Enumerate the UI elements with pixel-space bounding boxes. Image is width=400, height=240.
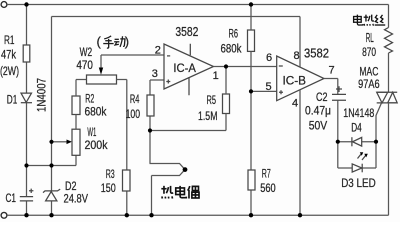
junction bottom rail / C1 — [24, 213, 28, 217]
wire link y=165.5 — [27, 155, 77, 165]
svg-text:(: ( — [97, 34, 102, 49]
svg-text:R1: R1 — [4, 35, 15, 47]
wire B vertical x=51.5 — [51, 17, 53, 216]
wire C2 to D4 — [337, 100, 339, 141]
char dian — [176, 186, 187, 198]
wire W2 wiper arrow — [100, 55, 102, 68]
wire pin4 — [299, 90, 301, 215]
wire R2-W1 column — [76, 80, 87, 130]
wire IC-B output to C2 — [324, 79, 338, 95]
svg-text:3582: 3582 — [175, 24, 198, 39]
svg-text:97A6: 97A6 — [358, 79, 380, 91]
resistor RL zigzag — [385, 28, 393, 54]
svg-text:): ) — [125, 34, 129, 49]
wire D4 rung — [338, 141, 376, 143]
char si — [375, 15, 386, 25]
svg-text:1: 1 — [213, 70, 219, 82]
wire bottom rail — [7, 214, 389, 216]
char re — [161, 186, 173, 199]
svg-text:(2W): (2W) — [0, 66, 19, 78]
terminal bottom-left — [1, 212, 7, 218]
wire top rail — [7, 4, 389, 6]
wire R6/R7 column — [250, 5, 252, 216]
svg-text:150: 150 — [101, 183, 116, 195]
svg-text:W2: W2 — [80, 47, 93, 59]
wire R5 leads — [225, 67, 227, 131]
svg-text:8: 8 — [294, 50, 300, 62]
svg-text:R4: R4 — [130, 94, 140, 106]
svg-text:C1: C1 — [6, 193, 17, 205]
resistor R3 — [123, 170, 131, 191]
junction bottom rail / R7 — [249, 213, 253, 217]
char re2 — [364, 15, 374, 26]
svg-text:W1: W1 — [87, 127, 96, 139]
svg-text:D4: D4 — [351, 123, 362, 135]
svg-text:100: 100 — [126, 109, 141, 121]
svg-text:D2: D2 — [65, 181, 77, 193]
LED D3 — [352, 152, 368, 172]
junction bottom rail / thermocouple — [149, 213, 153, 217]
junction IC-A output node — [224, 64, 228, 68]
label thermocouple — [161, 186, 199, 199]
capacitor C2 — [332, 86, 346, 100]
svg-text:1.5M: 1.5M — [198, 111, 218, 123]
svg-text:3: 3 — [152, 68, 158, 80]
svg-text:RL: RL — [366, 31, 374, 45]
potentiometer W2 — [87, 75, 117, 84]
svg-text:4: 4 — [292, 98, 298, 110]
char dong — [114, 36, 125, 47]
resistor R4 — [147, 95, 154, 116]
terminal top-left — [1, 2, 7, 8]
wire W2 right lead to R3 — [117, 80, 127, 216]
wire D box sides — [338, 142, 376, 168]
label heating wire — [354, 15, 386, 26]
wire IC-A output — [214, 66, 277, 68]
svg-text:680k: 680k — [221, 43, 242, 55]
svg-text:200k: 200k — [85, 140, 108, 152]
wire D3 rung — [338, 167, 376, 169]
svg-text:D1: D1 — [7, 95, 17, 107]
label (manual) — [97, 34, 130, 49]
wire triac gate — [376, 103, 382, 142]
svg-text:R3: R3 — [106, 169, 115, 181]
thermocouple — [150, 164, 188, 216]
svg-text:560: 560 — [260, 183, 276, 195]
svg-text:MAC: MAC — [359, 66, 378, 78]
junction wire B / DC link — [49, 163, 53, 167]
junction R6/R7 divider at pin 5 — [249, 89, 253, 93]
zener D2 — [43, 189, 60, 201]
svg-text:D3 LED: D3 LED — [341, 178, 376, 190]
svg-text:47k: 47k — [1, 50, 16, 62]
wire box top rail y=16.5 — [52, 16, 301, 18]
wire RL to triac — [388, 53, 390, 92]
svg-text:3582: 3582 — [304, 46, 329, 61]
wire pin3 / R4 column — [150, 80, 164, 164]
wire triac to bottom rail — [388, 103, 390, 215]
op-amp U1 IC-A — [164, 44, 214, 95]
wire pin2 to IC-A — [101, 54, 164, 56]
wire feedback y=130.5 — [150, 130, 226, 132]
svg-text:680k: 680k — [85, 107, 107, 119]
junction wire A / DC link — [24, 163, 28, 167]
svg-text:C2: C2 — [316, 92, 328, 104]
wire W1 wiper — [52, 141, 68, 143]
svg-text:IC-A: IC-A — [173, 63, 196, 75]
op-amp U2 IC-B — [277, 56, 324, 101]
junction bottom rail / D2 — [49, 213, 53, 217]
wire right vertical upper — [388, 5, 390, 28]
svg-text:IC-B: IC-B — [283, 75, 307, 87]
junction bottom rail / R3 — [125, 213, 129, 217]
junction gate to D4/D3 right — [374, 140, 378, 144]
junction top rail / R6 branch — [249, 2, 253, 6]
resistor R2 — [72, 96, 80, 115]
resistor R1 — [23, 45, 30, 62]
svg-text:1N4148: 1N4148 — [343, 108, 374, 120]
char ou — [188, 186, 199, 198]
triac MAC97A6 — [377, 92, 398, 103]
svg-text:6: 6 — [266, 52, 272, 64]
svg-text:50V: 50V — [309, 120, 328, 132]
resistor R6 — [248, 30, 255, 51]
junction top rail / R1 branch — [24, 2, 28, 6]
junction W1 wiper on wire B — [49, 140, 53, 144]
junction bottom rail / pin 4 — [298, 213, 302, 217]
svg-text:R6: R6 — [229, 28, 239, 40]
capacitor C1 — [20, 189, 34, 201]
svg-text:870: 870 — [362, 47, 376, 59]
char shou — [103, 36, 113, 48]
resistor R7 — [248, 170, 255, 190]
diode D1 — [21, 93, 32, 103]
svg-text:R7: R7 — [262, 169, 271, 181]
resistor R5 — [223, 94, 230, 114]
potentiometer W1 — [72, 129, 80, 155]
wire pin5 — [251, 90, 277, 92]
diode D4 — [352, 137, 362, 146]
svg-text:1N4007: 1N4007 — [37, 78, 49, 112]
wire pin8 — [299, 17, 301, 68]
svg-text:470: 470 — [76, 60, 93, 72]
junction C2 to D4/D3 left — [336, 140, 340, 144]
char dian2 — [354, 15, 363, 25]
svg-text:2: 2 — [155, 45, 161, 57]
junction R4/R5/thermocouple node — [148, 128, 152, 132]
svg-text:0.47μ: 0.47μ — [305, 105, 331, 117]
svg-text:R2: R2 — [85, 93, 94, 105]
svg-text:R5: R5 — [207, 95, 217, 107]
svg-text:24.8V: 24.8V — [64, 194, 89, 206]
wire A vertical x=26.5 — [26, 5, 28, 216]
svg-text:5: 5 — [266, 81, 272, 93]
svg-text:7: 7 — [329, 65, 335, 77]
